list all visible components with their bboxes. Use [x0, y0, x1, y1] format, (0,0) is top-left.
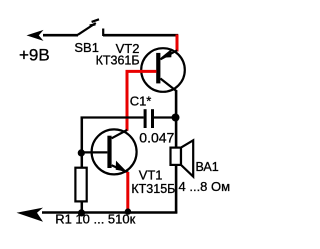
power arrow +9V (left-pointing) [27, 30, 44, 41]
svg-text:0.047: 0.047 [139, 130, 174, 146]
transistor VT2 circle [141, 48, 185, 92]
switch SB1 right contact [102, 29, 104, 37]
switch SB1 actuator tick [90, 24, 96, 25]
wire red from VT1 emitter down to bottom wire [126, 172, 129, 213]
resistor R1 body [75, 168, 86, 202]
return arrow bottom (left-pointing) [17, 208, 44, 222]
speaker BA1 cone [181, 140, 193, 176]
svg-text:КТ361Б: КТ361Б [96, 53, 140, 67]
transistor VT1 circle [92, 129, 137, 174]
capacitor C1 right plate [151, 109, 154, 128]
transistor VT2 collector lead [160, 79, 177, 92]
resistor R1 bottom lead [81, 201, 84, 213]
speaker BA1 box [171, 148, 182, 165]
svg-text:+9В: +9В [19, 46, 50, 65]
wire top horizontal left segment to switch [43, 34, 78, 37]
wire red from top corner down to VT2 emitter [176, 35, 179, 52]
transistor VT2 emitter arrow (PNP, points to base) [161, 49, 172, 58]
wire bottom horizontal [42, 211, 177, 214]
capacitor C1 left wire [81, 116, 144, 118]
switch SB1 actuator top dash [92, 19, 99, 22]
transistor VT1 base bar [107, 136, 111, 168]
svg-text:ВА1: ВА1 [196, 160, 219, 174]
capacitor C1 right wire [154, 116, 176, 118]
svg-text:КТ315Б: КТ315Б [131, 182, 175, 196]
wire red VT2 base horizontal [126, 70, 157, 73]
wire right vertical from VT2 collector to bottom corner [175, 91, 178, 214]
junction node R1 bottom [78, 209, 85, 216]
svg-text:C1*: C1* [130, 93, 152, 108]
junction node VT1 emitter / bottom wire [125, 208, 131, 214]
transistor VT1 emitter lead [112, 165, 129, 173]
wire top horizontal right segment to corner [103, 34, 178, 37]
capacitor C1 left plate [144, 109, 147, 128]
transistor VT1 collector lead [112, 130, 128, 138]
wire red vertical from VT2 base down to VT1 collector [126, 70, 129, 131]
switch SB1 lever [78, 23, 96, 35]
transistor VT2 emitter lead [160, 50, 177, 59]
transistor VT2 base bar [156, 53, 160, 84]
wire left vertical from C1 corner to VT1 base junction and R1 [81, 119, 84, 168]
transistor VT1 base lead [81, 151, 108, 153]
junction node C1 / speaker wire [172, 114, 180, 122]
svg-text:VT1: VT1 [139, 167, 163, 182]
transistor VT1 emitter arrow (NPN, points out) [116, 161, 127, 172]
junction node VT1 base / R1 / C1 [78, 149, 85, 156]
svg-text:4 ...8 Ом: 4 ...8 Ом [179, 179, 231, 194]
